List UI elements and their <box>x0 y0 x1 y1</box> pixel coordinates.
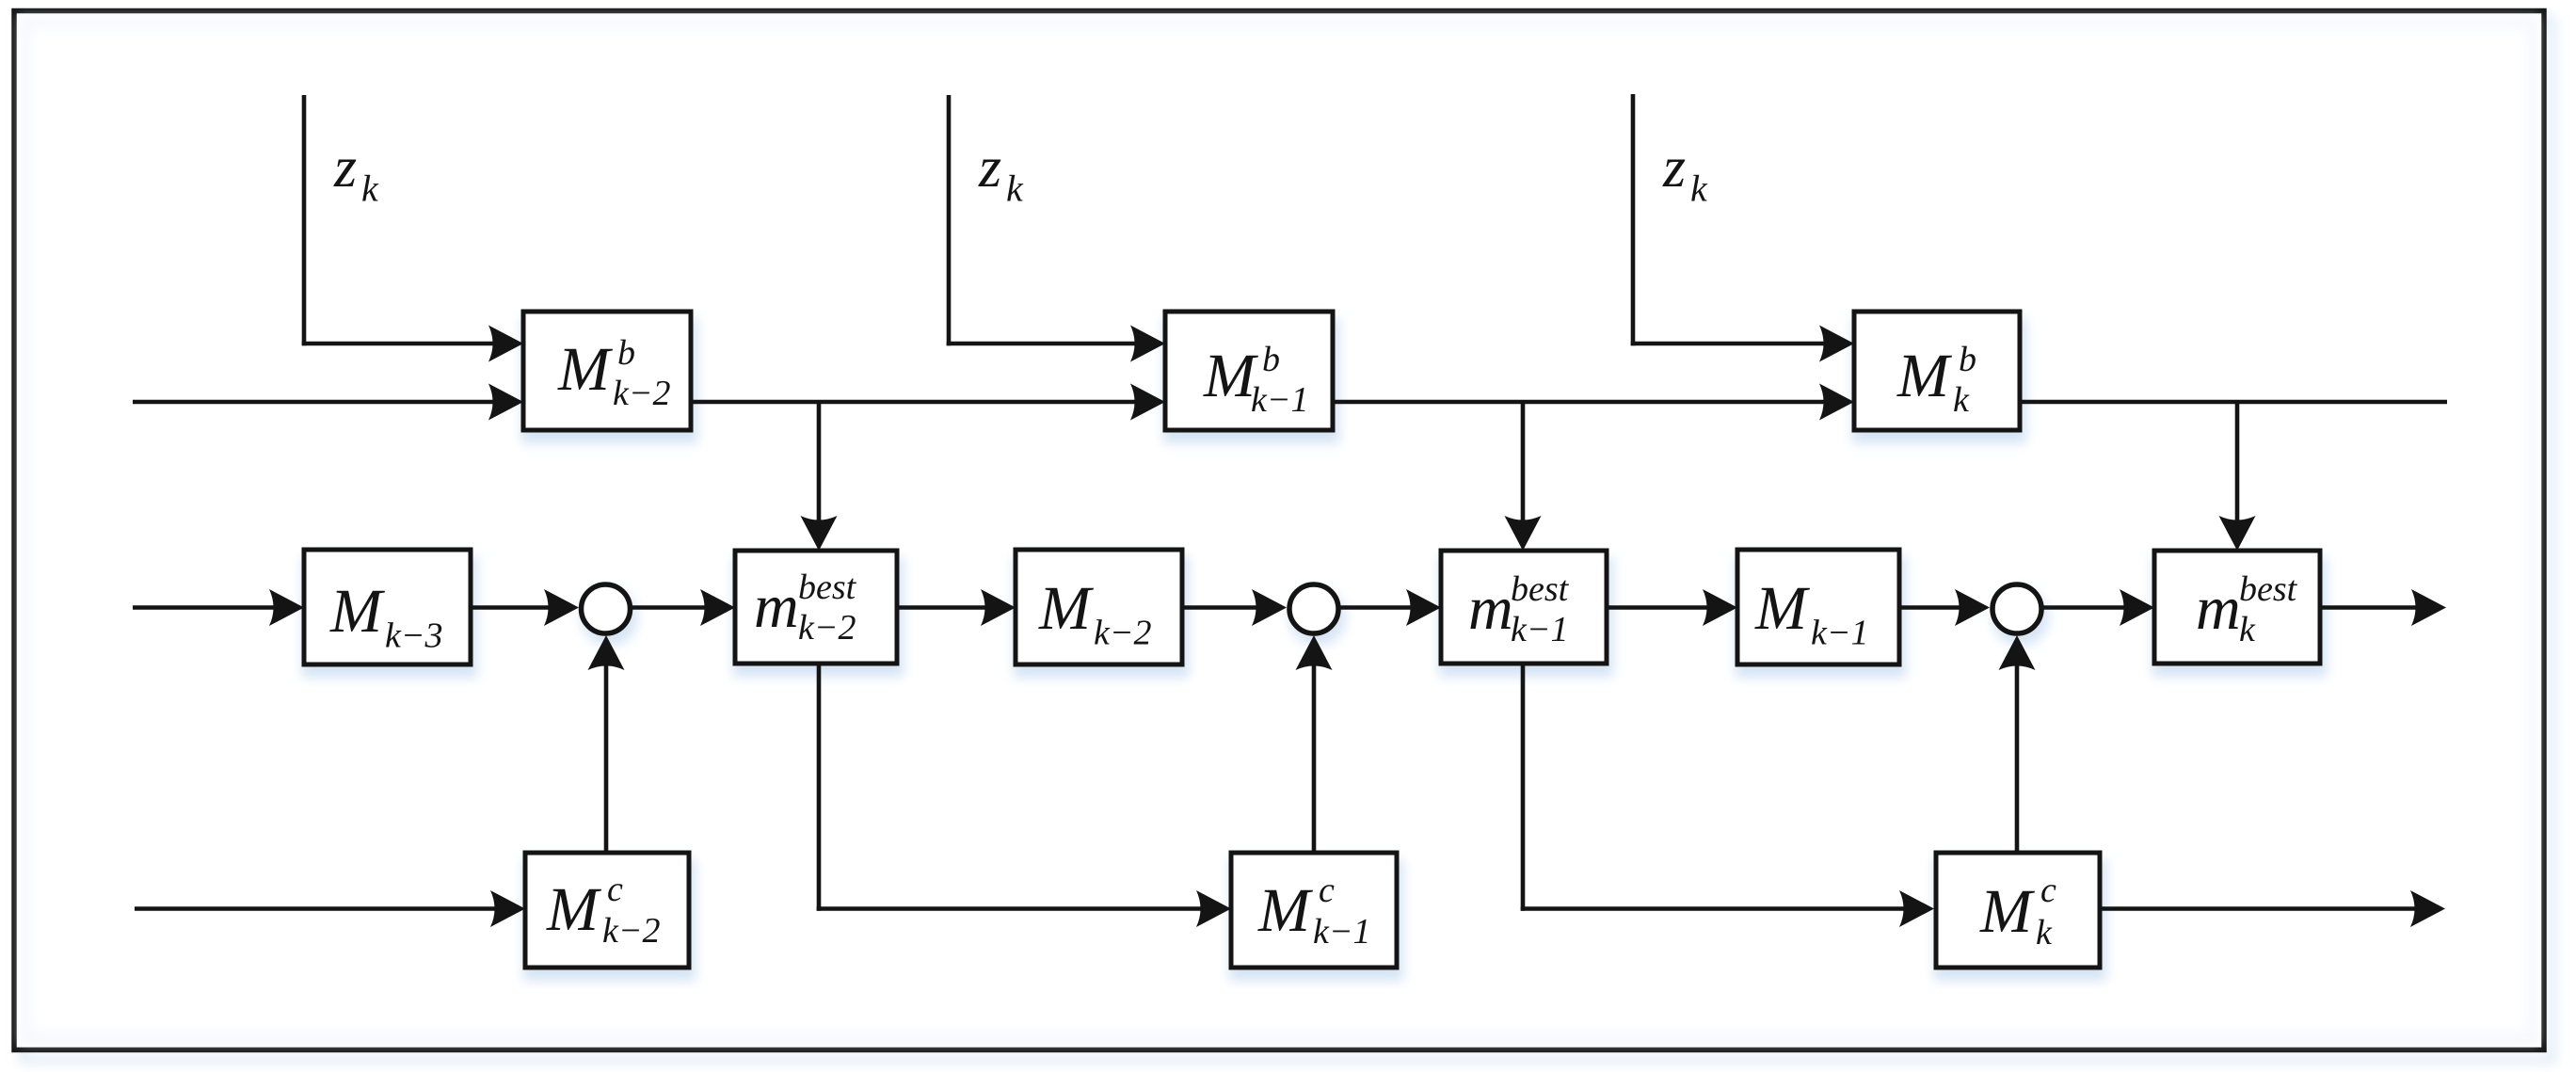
arrowhead z_k into M^b_{k-1} <box>1130 326 1165 362</box>
block M_{k-3} <box>304 550 471 664</box>
block M^c_{k-2} <box>525 853 689 968</box>
wire m^best_{k-1} to M_{k-1} <box>1607 605 1712 610</box>
svg-text:best: best <box>1511 569 1570 609</box>
svg-text:best: best <box>2239 569 2298 609</box>
block M_{k-2} <box>1016 550 1182 664</box>
block M^b_{k-1} <box>1165 312 1333 430</box>
wire top main input <box>133 400 498 405</box>
svg-text:k: k <box>1006 168 1024 210</box>
block m^best_{k-1} <box>1441 551 1607 664</box>
svg-text:c: c <box>2040 871 2056 910</box>
arrowhead main into M^b_{k-2} <box>488 384 523 421</box>
wire middle input <box>133 605 279 610</box>
block m^best_{k-2} <box>735 551 897 664</box>
junction circle 3 <box>1992 584 2041 633</box>
svg-text:M: M <box>1754 574 1811 643</box>
svg-text:k−1: k−1 <box>1511 610 1569 649</box>
svg-text:k−2: k−2 <box>1094 614 1152 653</box>
svg-text:M: M <box>546 875 602 944</box>
svg-text:M: M <box>1038 574 1095 643</box>
block m^best_k <box>2154 551 2320 664</box>
wire circle 1 to m^best_{k-2} <box>632 605 710 610</box>
block M^b_{k-2} <box>523 312 691 430</box>
block M^c_{k-1} <box>1231 853 1397 968</box>
wire junction drop to m^best_k <box>2235 402 2240 525</box>
junction circle 2 <box>1289 584 1338 633</box>
svg-text:M: M <box>1979 877 2036 946</box>
wire m^best_{k-2} to M_{k-2} <box>897 605 990 610</box>
svg-text:k−1: k−1 <box>1313 912 1371 952</box>
wire z_k input 1 <box>302 95 498 345</box>
svg-text:z: z <box>978 136 1001 200</box>
svg-text:b: b <box>617 333 635 373</box>
svg-text:z: z <box>333 136 357 200</box>
arrowhead into m^best_k <box>2120 589 2154 626</box>
wire M_{k-3} to circle 1 <box>471 605 553 610</box>
wire circle 3 to m^best_k <box>2044 605 2130 610</box>
svg-text:k−2: k−2 <box>602 911 661 951</box>
svg-text:M: M <box>1257 876 1314 945</box>
block M^b_k <box>1854 312 2020 430</box>
wire junction drop to m^best_{k-1} <box>1521 402 1526 525</box>
wire m^best_k output <box>2320 605 2421 610</box>
svg-text:M: M <box>329 577 386 646</box>
arrowhead into circle 2 bottom <box>1296 635 1333 670</box>
wire M^b_{k-2} to M^b_{k-1} <box>691 400 1140 405</box>
wire M_{k-2} to circle 2 <box>1182 605 1261 610</box>
wire junction drop to m^best_{k-2} <box>817 402 822 525</box>
svg-text:z: z <box>1662 136 1686 200</box>
arrowhead into circle 3 bottom <box>1999 635 2036 670</box>
wire z_k input 2 <box>947 95 1140 345</box>
svg-text:m: m <box>2196 574 2241 643</box>
svg-text:M: M <box>1896 342 1953 410</box>
arrowhead z_k into M^b_k <box>1819 326 1854 362</box>
arrowhead into M_{k-2} <box>981 589 1016 626</box>
wire M^c_k up to circle 3 <box>2015 661 2020 853</box>
arrowhead into circle 1 <box>544 589 579 626</box>
block M^c_k <box>1936 853 2100 968</box>
node z_k label 1 <box>333 136 379 210</box>
svg-text:k−2: k−2 <box>798 608 856 648</box>
arrowhead into circle 3 <box>1955 589 1990 626</box>
svg-text:k: k <box>2036 913 2053 952</box>
wire m^best_{k-1} down to M^c_k <box>1521 664 1909 911</box>
decorative shadows <box>302 318 2327 981</box>
arrowhead bottom output <box>2410 890 2445 927</box>
wire M^b_{k-1} to M^b_k <box>1333 400 1829 405</box>
wire M^c_{k-1} up to circle 2 <box>1312 661 1317 853</box>
svg-text:b: b <box>1959 340 1976 379</box>
arrowhead into m^best_{k-1} top <box>1505 516 1542 551</box>
wire m^best_{k-2} down to M^c_{k-1} <box>817 664 1206 911</box>
wire circle 2 to m^best_{k-1} <box>1341 605 1416 610</box>
arrowhead main into M^b_k <box>1819 384 1854 421</box>
arrowhead into M_{k-1} <box>1703 589 1737 626</box>
wire M_{k-1} to circle 3 <box>1899 605 1964 610</box>
svg-text:M: M <box>557 335 614 404</box>
svg-text:k−1: k−1 <box>1811 614 1869 653</box>
arrowhead main into M^b_{k-1} <box>1130 384 1165 421</box>
svg-text:c: c <box>1319 871 1335 910</box>
svg-text:c: c <box>607 870 623 909</box>
svg-text:k: k <box>1953 380 1970 420</box>
arrowhead into circle 2 <box>1252 589 1287 626</box>
arrowhead into m^best_{k-1} <box>1406 589 1441 626</box>
svg-text:k: k <box>361 168 379 210</box>
arrowhead middle output <box>2411 589 2446 626</box>
arrowhead into M^c_{k-1} <box>1196 890 1231 927</box>
svg-text:m: m <box>754 572 799 641</box>
arrowhead into M^c_k <box>1899 890 1934 927</box>
wire M^c_k output <box>2100 906 2420 911</box>
svg-text:b: b <box>1262 340 1280 379</box>
junction circle 1 <box>582 584 631 633</box>
arrowhead into circle 1 bottom <box>588 635 625 670</box>
svg-text:k: k <box>1690 168 1708 210</box>
block M_{k-1} <box>1737 550 1899 664</box>
node z_k label 2 <box>978 136 1024 210</box>
svg-text:best: best <box>798 568 857 607</box>
arrowhead into M^c_{k-2} <box>490 890 525 927</box>
svg-text:k: k <box>2239 610 2256 649</box>
wire M^b_k to right <box>2020 400 2447 405</box>
arrowhead z_k into M^b_{k-2} <box>488 326 523 362</box>
svg-text:k−1: k−1 <box>1251 380 1309 420</box>
arrowhead into m^best_{k-2} top <box>801 516 838 551</box>
arrowhead into m^best_k top <box>2219 516 2256 551</box>
arrowhead into M_{k-3} <box>269 589 304 626</box>
wire z_k input 3 <box>1631 94 1829 345</box>
node z_k label 3 <box>1662 136 1708 210</box>
svg-text:m: m <box>1468 574 1513 643</box>
svg-text:k−2: k−2 <box>613 374 671 413</box>
svg-text:k−3: k−3 <box>385 616 443 656</box>
wire M^c_{k-2} up to circle 1 <box>604 661 609 853</box>
arrowhead into m^best_{k-2} <box>700 589 735 626</box>
wire bottom input <box>135 906 500 911</box>
